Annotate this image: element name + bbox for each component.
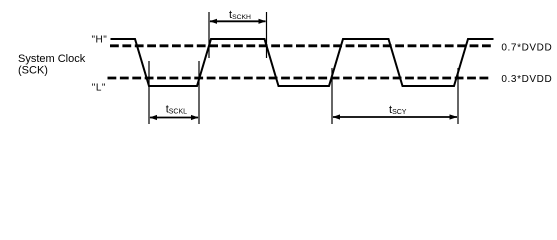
t_SCKL dimension arrow — [150, 115, 199, 120]
0.3*DVDD threshold dashed line — [108, 77, 492, 80]
0.7*DVDD threshold dashed line — [110, 44, 493, 47]
t_SCKH measurement extension line left — [208, 12, 210, 58]
t_SCKH measurement extension line right — [266, 12, 268, 58]
t_SCY measurement extension line left — [331, 68, 333, 124]
svg-text:"L": "L" — [92, 82, 106, 93]
svg-text:0.3*DVDD: 0.3*DVDD — [501, 74, 552, 85]
t_SCKL measurement extension line right — [198, 61, 200, 124]
t_SCKH dimension arrow — [210, 19, 267, 24]
t_SCY measurement extension line right — [457, 68, 459, 124]
svg-text:"H": "H" — [92, 35, 108, 46]
SCK clock waveform — [111, 39, 494, 86]
t_SCY dimension arrow — [333, 114, 458, 119]
svg-text:0.7*DVDD: 0.7*DVDD — [501, 43, 552, 54]
svg-text:System Clock: System Clock — [18, 53, 86, 65]
t_SCKL measurement extension line left — [148, 61, 150, 124]
label: System Clock (SCK) — [18, 53, 86, 77]
svg-text:(SCK): (SCK) — [18, 65, 48, 77]
